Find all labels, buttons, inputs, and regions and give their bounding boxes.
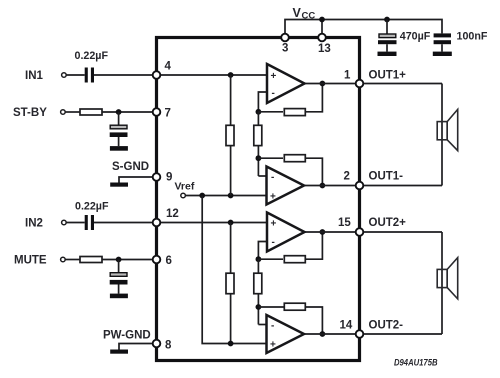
svg-text:PW-GND: PW-GND bbox=[103, 330, 151, 342]
wire gain chain upper ch2 bbox=[257, 259, 259, 324]
svg-text:4: 4 bbox=[165, 61, 172, 73]
pin 13 bbox=[318, 34, 326, 42]
svg-text:-: - bbox=[272, 88, 275, 99]
svg-text:+: + bbox=[271, 219, 277, 230]
svg-text:S-GND: S-GND bbox=[112, 161, 149, 173]
wire gain chain upper bbox=[257, 112, 259, 176]
svg-text:7: 7 bbox=[165, 108, 171, 120]
svg-text:0.22µF: 0.22µF bbox=[75, 50, 109, 62]
wire fb1 right bbox=[305, 84, 322, 112]
svg-text:1: 1 bbox=[344, 70, 351, 82]
resistor gain ch2 bbox=[254, 273, 262, 294]
terminal IN1 bbox=[62, 73, 67, 78]
svg-text:12: 12 bbox=[166, 208, 179, 220]
svg-text:ST-BY: ST-BY bbox=[13, 107, 47, 119]
wire pin4 to op1 + input bbox=[157, 74, 268, 76]
junction op3 fb bbox=[256, 256, 262, 262]
wire resistor to pin7 bbox=[102, 111, 157, 113]
wire resistor to pin6 bbox=[102, 259, 157, 261]
resistor R-STBY bbox=[80, 109, 102, 115]
wire ST-BY to resistor bbox=[65, 111, 80, 113]
junction out1 bbox=[320, 81, 326, 87]
ground bar PW-GND bbox=[110, 350, 128, 354]
svg-text:D94AU175B: D94AU175B bbox=[394, 356, 438, 367]
op-amp U1C bbox=[267, 213, 305, 252]
junction Vref-down bbox=[199, 193, 205, 199]
svg-text:+: + bbox=[270, 340, 276, 351]
wire OUT1+ bbox=[360, 83, 443, 85]
junction ST-BY node bbox=[116, 109, 122, 115]
ground bar for 470uF bbox=[378, 52, 397, 56]
wire OUT2- bbox=[360, 333, 443, 335]
wire op1 - input bbox=[258, 92, 267, 112]
svg-text:MUTE: MUTE bbox=[14, 255, 47, 267]
ground bar MUTE cap bbox=[110, 294, 128, 299]
wire op2 output to pin2 bbox=[304, 185, 360, 187]
junction op1 fb bbox=[256, 109, 262, 115]
pin 7 bbox=[153, 108, 161, 116]
pin 1 bbox=[356, 80, 364, 88]
capacitor 470uF bbox=[379, 34, 396, 38]
ground bar for 100nF bbox=[433, 52, 452, 56]
pin 12 bbox=[153, 219, 161, 227]
op-amp U1A bbox=[267, 64, 305, 103]
svg-text:0.22µF: 0.22µF bbox=[75, 200, 109, 212]
speaker LS2 bbox=[437, 258, 458, 299]
pin 9 bbox=[153, 173, 161, 181]
pin 6 bbox=[153, 256, 161, 264]
ground bar ST-BY cap bbox=[110, 146, 128, 151]
junction IN2 bias bbox=[228, 220, 234, 226]
svg-text:100nF: 100nF bbox=[457, 31, 488, 43]
wire IN1 to cap bbox=[66, 74, 85, 76]
junction VCC-C470 bbox=[384, 17, 390, 23]
pin 14 bbox=[356, 330, 364, 338]
wire fb1 left bbox=[258, 111, 283, 113]
wire op2 - input bbox=[258, 175, 266, 177]
wire junction to cap bbox=[118, 260, 120, 273]
svg-text:IN2: IN2 bbox=[25, 218, 43, 230]
svg-text:OUT1+: OUT1+ bbox=[369, 70, 407, 82]
speaker LS1 bbox=[437, 109, 458, 150]
svg-text:14: 14 bbox=[340, 320, 353, 332]
terminal ST-BY bbox=[61, 110, 66, 115]
terminal MUTE bbox=[61, 257, 66, 262]
svg-text:9: 9 bbox=[166, 172, 172, 184]
ground bar S-GND bbox=[110, 183, 128, 187]
wire pin8 to PW-GND bbox=[119, 344, 157, 350]
resistor feedback op4 bbox=[284, 303, 305, 310]
svg-text:6: 6 bbox=[166, 255, 172, 267]
wire op4 - input bbox=[258, 324, 266, 326]
svg-text:-: - bbox=[272, 237, 275, 248]
wire fb2 right bbox=[305, 158, 322, 185]
svg-text:+: + bbox=[270, 192, 276, 203]
resistor R-MUTE bbox=[80, 257, 102, 263]
wire op3 - input bbox=[258, 242, 267, 260]
junction MUTE node bbox=[116, 257, 122, 263]
pin 2 bbox=[356, 182, 364, 190]
wire fb4 right bbox=[305, 307, 322, 334]
wire speaker2 loop bbox=[441, 232, 443, 334]
wire fb3 left bbox=[258, 258, 283, 260]
op-amp U1B bbox=[267, 167, 305, 205]
resistor feedback op3 bbox=[284, 256, 305, 263]
svg-text:OUT2+: OUT2+ bbox=[369, 217, 407, 229]
wire fb4 left bbox=[258, 306, 284, 308]
capacitor ST-BY (polarized) bbox=[110, 125, 127, 129]
svg-text:2: 2 bbox=[344, 171, 350, 183]
wire bias chain upper ch1 bbox=[230, 75, 232, 196]
junction IN1 bias bbox=[228, 72, 234, 78]
capacitor 100nF bbox=[434, 33, 451, 37]
svg-text:OUT1-: OUT1- bbox=[369, 171, 404, 183]
junction fb2 bbox=[256, 155, 262, 161]
pin 15 bbox=[356, 228, 364, 236]
junction fb4 bbox=[256, 304, 262, 310]
wire op4 output to pin14 bbox=[304, 333, 360, 335]
svg-text:V: V bbox=[293, 6, 302, 20]
svg-text:Vref: Vref bbox=[175, 181, 195, 193]
resistor gain ch1 bbox=[254, 125, 262, 145]
wire op3 output to pin15 bbox=[305, 231, 360, 233]
wire op1 output to pin1 bbox=[305, 83, 360, 85]
wire fb3 right bbox=[305, 232, 322, 259]
svg-text:3: 3 bbox=[282, 43, 288, 55]
wire OUT2+ bbox=[360, 231, 443, 233]
IC package box U1 bbox=[157, 38, 360, 361]
junction out14 bbox=[320, 331, 326, 337]
capacitor 0.22uF C1 bbox=[85, 68, 88, 83]
junction out2 bbox=[320, 183, 326, 189]
op-amp U1D bbox=[267, 315, 305, 353]
svg-text:-: - bbox=[271, 172, 274, 183]
svg-text:13: 13 bbox=[318, 43, 331, 55]
wire Vref long vertical to op4 + input bbox=[202, 196, 266, 344]
resistor bias ch1 bbox=[226, 125, 234, 145]
capacitor 0.22uF C2 bbox=[85, 215, 88, 230]
svg-text:15: 15 bbox=[338, 217, 351, 229]
wire cap to pin4 bbox=[94, 74, 157, 76]
wire IN2 to cap bbox=[66, 222, 85, 224]
wire fb2 left bbox=[258, 157, 283, 159]
wire pin9 to S-GND bbox=[119, 177, 157, 183]
junction op4 + node bbox=[228, 341, 234, 347]
wire OUT1- bbox=[360, 185, 443, 187]
resistor feedback op1 bbox=[284, 109, 305, 116]
resistor feedback op2 bbox=[284, 155, 305, 162]
junction VCC-pin13 bbox=[319, 17, 325, 23]
wire MUTE to resistor bbox=[65, 259, 80, 261]
wire pin13 riser bbox=[321, 20, 323, 34]
wire VCC rail bbox=[285, 20, 442, 34]
wire speaker1 loop bbox=[441, 84, 443, 186]
wire Vref rail to op2 + input bbox=[185, 195, 266, 197]
svg-text:IN1: IN1 bbox=[25, 70, 44, 82]
wire cap to pin12 bbox=[94, 222, 157, 224]
resistor bias ch2 bbox=[226, 273, 234, 294]
pin 3 bbox=[281, 34, 289, 42]
wire C470 lead bbox=[386, 20, 388, 35]
svg-text:470µF: 470µF bbox=[400, 31, 431, 43]
pin 8 bbox=[153, 340, 161, 348]
capacitor MUTE (polarized) bbox=[110, 273, 127, 277]
svg-text:8: 8 bbox=[165, 340, 172, 352]
junction Vref-bias1 bbox=[228, 193, 234, 199]
svg-text:-: - bbox=[271, 321, 274, 332]
terminal IN2 bbox=[62, 220, 67, 225]
svg-text:OUT2-: OUT2- bbox=[369, 320, 404, 332]
junction out15 bbox=[320, 229, 326, 235]
wire pin12 to op3 + input bbox=[157, 222, 268, 224]
pin 4 bbox=[153, 71, 161, 79]
wire junction to cap bbox=[118, 112, 120, 125]
svg-text:+: + bbox=[271, 71, 277, 82]
wire bias chain upper ch2 bbox=[230, 223, 232, 344]
